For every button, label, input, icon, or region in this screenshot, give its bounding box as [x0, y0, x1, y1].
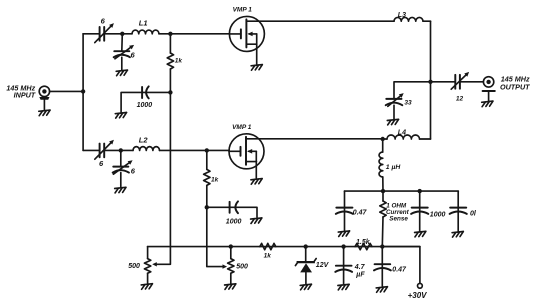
resistor R4 1k bias series [260, 243, 276, 249]
capacitor C11 .01 bus [450, 191, 467, 232]
svg-text:µF: µF [355, 271, 365, 278]
node lower gate junction [205, 148, 209, 152]
ground [116, 70, 127, 76]
capacitor C3 1000 upper gate [121, 86, 170, 112]
svg-text:6: 6 [99, 159, 104, 168]
svg-text:1 µH: 1 µH [386, 164, 402, 171]
wire bottom branch to C4 [83, 149, 99, 151]
ground [251, 65, 262, 71]
capacitor C9 0.47 drain bypass [336, 191, 353, 231]
capacitor C13 0.47 bias bypass [374, 247, 391, 287]
connector J1 145 MHz input [39, 86, 49, 110]
wire L1 to node [159, 33, 170, 35]
ground [338, 284, 349, 290]
svg-text:6: 6 [101, 16, 106, 25]
wire input to bus [50, 90, 84, 92]
ground [251, 179, 262, 185]
wire left bus [82, 34, 84, 151]
label 145 MHz OUTPUT [500, 74, 530, 91]
potentiometer R6 500 [228, 247, 234, 284]
node output junction [428, 80, 432, 84]
svg-text:1000: 1000 [137, 102, 153, 109]
wire bias to +30V terminal [382, 247, 420, 284]
svg-text:6: 6 [131, 51, 136, 60]
svg-text:1k: 1k [264, 252, 272, 259]
capacitor C12 4.7uF [335, 247, 352, 285]
wire C8 to J2 [460, 81, 483, 83]
wire top branch to C1 [83, 33, 99, 35]
terminal +30V [418, 283, 423, 288]
node bus sense junction [381, 189, 385, 193]
node bias zener [304, 244, 308, 248]
resistor R2 1k lower gate [204, 150, 210, 207]
svg-text:6: 6 [131, 167, 136, 176]
wire junction to C7 [394, 82, 431, 99]
connector J2 145 MHz output [483, 77, 495, 102]
ground [300, 284, 311, 290]
ground [251, 218, 262, 224]
resistor R3 1 OHM current sense [380, 191, 386, 247]
wire Q2 source [255, 162, 257, 179]
ground [376, 287, 387, 293]
svg-text:1k: 1k [211, 177, 219, 184]
wire C4 to node [104, 149, 121, 151]
svg-text:INPUT: INPUT [14, 91, 36, 100]
wire upper decoupling bus [345, 190, 459, 192]
wire drain column [430, 21, 432, 139]
svg-text:L1: L1 [139, 19, 148, 28]
svg-text:L2: L2 [139, 136, 149, 145]
svg-text:VMP 1: VMP 1 [232, 124, 252, 131]
svg-text:1.5k: 1.5k [356, 239, 371, 246]
svg-text:0l: 0l [470, 210, 477, 217]
inductor L4 [387, 135, 420, 139]
inductor L3 [394, 17, 423, 21]
svg-text:0.47: 0.47 [353, 210, 368, 217]
capacitor C6 1000 lower gate [207, 201, 257, 217]
trimmer capacitor C1 6pF series [95, 23, 114, 42]
trimmer capacitor C4 6pF series [95, 140, 114, 160]
svg-text:L4: L4 [398, 129, 406, 136]
wire L2 to Q2 gate [160, 149, 230, 151]
ground [338, 231, 349, 237]
svg-text:500: 500 [236, 264, 248, 271]
trimmer capacitor C7 33 [386, 93, 404, 119]
svg-text:1k: 1k [175, 58, 183, 65]
ground [39, 110, 50, 116]
ground [415, 231, 426, 237]
wire node to L1 [122, 33, 132, 35]
svg-text:OUTPUT: OUTPUT [500, 83, 530, 92]
potentiometer R5 500 [144, 247, 150, 284]
inductor L2 [133, 147, 160, 151]
ground [482, 101, 493, 107]
wire lower bias column to pot R6 wiper [207, 207, 227, 268]
wire Q1 source [256, 44, 258, 65]
svg-text:12V: 12V [316, 262, 330, 269]
node lower bias junction [205, 205, 209, 209]
node bias sense junction [380, 244, 384, 248]
node drain L4 junction [381, 137, 385, 141]
resistor R7 1.5k [355, 243, 372, 249]
trimmer capacitor C5 6pF shunt [113, 150, 133, 187]
wire Q1 drain to L3 [246, 20, 394, 22]
node input-bus junction [81, 89, 85, 93]
node upper gate junction [168, 32, 172, 36]
ground [387, 119, 398, 125]
wire upper bias column to pot R5 wiper [152, 92, 170, 266]
svg-text:VMP 1: VMP 1 [233, 6, 253, 13]
svg-text:1000: 1000 [430, 211, 446, 218]
wire node to L4 [383, 138, 387, 140]
node bus 1000 junction [418, 189, 422, 193]
label 4.7 uF [354, 264, 366, 278]
label 145 MHz INPUT [6, 83, 35, 99]
ground [115, 187, 126, 193]
zener diode D1 12V [295, 247, 316, 284]
wire L4 to drain column [420, 138, 431, 140]
ground [225, 284, 236, 290]
transistor Q1 VMP1 [229, 16, 264, 51]
svg-text:500: 500 [128, 263, 140, 270]
svg-text:33: 33 [404, 100, 412, 107]
svg-text:12: 12 [456, 95, 464, 102]
svg-text:Sense: Sense [389, 216, 408, 223]
svg-text:4.7: 4.7 [354, 264, 366, 271]
node bottom matching junction [119, 148, 123, 152]
ground [452, 232, 463, 238]
wire node to Q1 gate [170, 33, 229, 35]
capacitor C10 1000 bus [411, 191, 428, 231]
wire bias rail [148, 246, 420, 248]
inductor L1 [132, 30, 159, 34]
resistor R1 1k upper gate [167, 34, 173, 93]
wire L3 to drain column [423, 20, 431, 22]
node bias 4.7uF [341, 244, 345, 248]
transistor Q2 VMP1 [229, 134, 264, 169]
wire node to L2 [121, 149, 133, 151]
label 1 OHM Current Sense [386, 202, 410, 222]
node top matching junction [120, 32, 124, 36]
node bias pot R6 [229, 244, 233, 248]
trimmer capacitor C2 6pF shunt [114, 34, 134, 71]
trimmer capacitor C8 12 output [451, 72, 469, 89]
wire C1 to node [104, 33, 122, 35]
svg-text:0.47: 0.47 [392, 267, 407, 274]
svg-text:L3: L3 [398, 12, 406, 19]
node upper bias junction [168, 90, 172, 94]
ground [115, 113, 126, 119]
wire Q2 drain to node [246, 138, 383, 140]
svg-text:+30V: +30V [408, 291, 428, 300]
inductor L5 1uH [379, 139, 383, 191]
svg-text:1000: 1000 [226, 219, 242, 226]
wire junction to C8 [431, 81, 456, 83]
ground [141, 284, 152, 290]
